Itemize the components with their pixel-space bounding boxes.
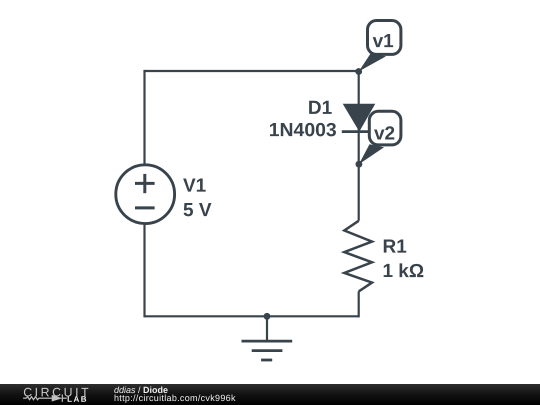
- svg-text:R1: R1: [382, 237, 407, 258]
- svg-text:v1: v1: [373, 31, 395, 52]
- svg-text:5 V: 5 V: [183, 200, 212, 221]
- svg-text:D1: D1: [308, 98, 333, 119]
- svg-text:1N4003: 1N4003: [269, 120, 337, 141]
- svg-text:V1: V1: [183, 176, 207, 197]
- svg-text:v2: v2: [374, 124, 395, 145]
- svg-text:1 kΩ: 1 kΩ: [382, 261, 424, 282]
- svg-text:LAB: LAB: [67, 395, 88, 404]
